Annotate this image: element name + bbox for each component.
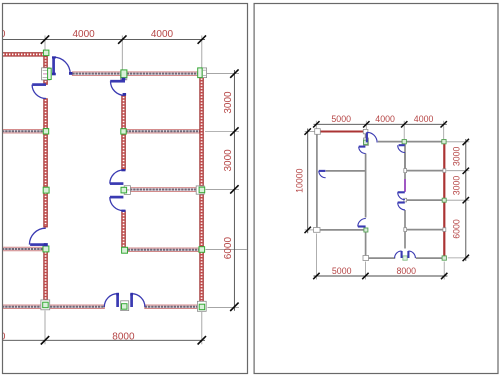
svg-text:3000: 3000	[452, 176, 462, 196]
svg-text:4000: 4000	[151, 29, 174, 40]
svg-text:5000: 5000	[331, 114, 351, 124]
svg-text:3000: 3000	[452, 147, 462, 167]
svg-text:8000: 8000	[112, 331, 135, 342]
svg-text:4000: 4000	[414, 114, 434, 124]
svg-text:4000: 4000	[375, 114, 395, 124]
svg-text:10000: 10000	[294, 168, 304, 193]
svg-text:6000: 6000	[452, 219, 462, 239]
svg-text:4000: 4000	[72, 29, 95, 40]
svg-text:8000: 8000	[397, 266, 417, 276]
svg-text:6000: 6000	[223, 237, 234, 260]
svg-text:3000: 3000	[223, 91, 234, 114]
svg-text:3000: 3000	[223, 149, 234, 172]
svg-text:5000: 5000	[332, 266, 352, 276]
